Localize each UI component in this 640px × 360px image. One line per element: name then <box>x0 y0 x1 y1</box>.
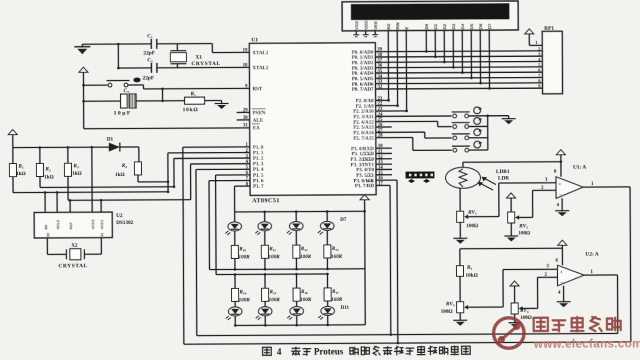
svg-text:U1: A: U1: A <box>573 165 586 171</box>
wire P1.7 row <box>235 185 250 187</box>
crystal X2 <box>66 249 84 260</box>
RTC DS1302 top pin labels <box>44 219 104 230</box>
resistor R10 top row <box>231 245 238 270</box>
svg-text:R13: R13 <box>332 247 339 252</box>
svg-text:D2: D2 <box>442 23 447 29</box>
wire RV1 wiper to pin3 <box>469 183 556 217</box>
label R13 value <box>331 254 343 260</box>
label R3 value <box>72 171 82 177</box>
junction reset rail button <box>82 84 85 87</box>
svg-text:DS1302: DS1302 <box>116 220 133 226</box>
wire P1.6 row <box>209 179 250 181</box>
svg-text:22pF: 22pF <box>142 75 154 81</box>
diamond marker right <box>423 179 430 183</box>
diamond marker left <box>408 179 415 183</box>
label RV4 value <box>520 316 532 321</box>
svg-text:P1. 0: P1. 0 <box>253 146 264 151</box>
svg-text:P1. 6: P1. 6 <box>253 179 264 184</box>
svg-text:100Ω: 100Ω <box>518 230 530 236</box>
label U2A pin2 <box>544 273 547 278</box>
svg-text:+: + <box>560 271 563 276</box>
svg-text:D0: D0 <box>424 23 429 29</box>
svg-text:D7: D7 <box>487 23 492 29</box>
svg-text:RV4: RV4 <box>520 309 529 314</box>
watermark url www.elecfans.com <box>533 338 640 351</box>
svg-text:P1. 5: P1. 5 <box>253 174 264 179</box>
svg-text:AT89C51: AT89C51 <box>252 198 280 204</box>
svg-text:P1. 2: P1. 2 <box>253 157 264 162</box>
LED D13 bottom row <box>287 306 303 326</box>
svg-text:R15: R15 <box>270 290 277 295</box>
wire X2 left <box>47 238 66 255</box>
bus terminator black block <box>406 172 434 178</box>
svg-text:100R: 100R <box>300 254 312 260</box>
wire U1A pin8 <box>560 158 563 177</box>
svg-text:R12: R12 <box>301 247 308 252</box>
LED D8 top row <box>255 210 271 245</box>
label RV1 value <box>466 223 478 229</box>
wire P3.6 down <box>376 180 399 344</box>
capacitor C2 <box>151 63 157 73</box>
wire net RST bus <box>68 199 191 202</box>
label LDR <box>498 176 509 182</box>
svg-text:P0. 3/AD3: P0. 3/AD3 <box>352 67 374 72</box>
svg-text:10kΩ: 10kΩ <box>183 107 199 113</box>
push button SW1 <box>452 107 488 118</box>
svg-text:D6: D6 <box>478 23 483 29</box>
wire riser to P1.1 <box>167 153 170 193</box>
svg-text:R14: R14 <box>240 290 247 295</box>
label R17 <box>332 290 339 295</box>
op-amp label U1 text <box>251 37 258 43</box>
label U2A pin1 <box>590 270 593 275</box>
svg-text:EA: EA <box>253 126 260 131</box>
push button reset <box>83 80 143 87</box>
label U2A pin8 <box>555 259 558 264</box>
ink blob speck <box>133 78 140 83</box>
svg-text:E: E <box>404 27 409 30</box>
wire VCC left rail <box>13 137 109 148</box>
label R14 <box>240 290 247 295</box>
svg-text:100Ω: 100Ω <box>466 223 478 229</box>
wire P1.0 row <box>183 146 250 148</box>
label C2 value 22pF <box>142 75 154 81</box>
label U1:A <box>573 165 586 171</box>
svg-text:100R: 100R <box>300 297 312 303</box>
junction RST node <box>161 88 164 103</box>
wire P1.1 row <box>168 151 250 153</box>
svg-text:VSS: VSS <box>354 21 359 30</box>
power VCC arrow U1A <box>556 150 565 158</box>
LDR1 sensor <box>445 167 496 190</box>
svg-text:P0. 0/AD0: P0. 0/AD0 <box>352 51 374 56</box>
label R5 <box>467 265 473 271</box>
svg-text:LDR1: LDR1 <box>496 169 510 175</box>
MCU label AT89C51 <box>252 198 280 204</box>
svg-text:XTAL1: XTAL1 <box>252 51 269 56</box>
svg-text:U1: U1 <box>251 37 258 43</box>
MCU port P1 pin labels <box>253 146 264 190</box>
wire P2.7 to button4 <box>376 137 452 150</box>
ground buttons <box>502 116 516 125</box>
svg-text:P1. 3: P1. 3 <box>253 162 264 167</box>
RTC U2 DS1302 body <box>34 212 112 238</box>
svg-text:1kΩ: 1kΩ <box>72 171 82 177</box>
svg-text:−: − <box>561 281 564 286</box>
label R15 value <box>269 297 281 303</box>
svg-text:P1. 1: P1. 1 <box>253 151 264 156</box>
svg-text:P2. 7/A15: P2. 7/A15 <box>353 137 374 142</box>
wire U1A output <box>583 187 631 342</box>
svg-text:D1: D1 <box>107 137 114 143</box>
wire gnd to C1 <box>82 43 151 45</box>
MCU port P3 pin labels <box>350 147 374 189</box>
svg-text:P2. 0/A8: P2. 0/A8 <box>356 99 375 104</box>
wire P2.2 row <box>376 110 407 112</box>
wire RP1 pin1 <box>529 37 542 46</box>
wire XTAL1 pin 19 <box>212 51 249 53</box>
label R12 value <box>300 254 312 260</box>
resistor R17 bottom row <box>324 273 331 306</box>
wire PSEN ALE stubs <box>237 112 250 120</box>
label R reset value 10k <box>183 107 199 113</box>
wire VCC rail down <box>82 75 84 128</box>
label R2 value <box>44 174 54 180</box>
wire net I/O bus <box>138 181 168 183</box>
capacitor C3 electrolytic <box>121 94 137 108</box>
wire R5 to RV3 <box>459 276 461 301</box>
MCU right pin numbers <box>377 48 383 187</box>
wire X1 right <box>84 238 101 255</box>
svg-text:VEE: VEE <box>373 21 378 30</box>
watermark text dianzifashaoyou <box>534 317 621 332</box>
label R12 <box>301 247 308 252</box>
wire LDR bottom <box>459 188 461 211</box>
LED D12 bottom row <box>256 307 272 327</box>
svg-text:1kΩ: 1kΩ <box>115 172 125 178</box>
svg-text:D4: D4 <box>460 23 465 29</box>
resistor R3 1k <box>64 146 71 200</box>
LED D9 top row <box>287 210 303 245</box>
svg-text:X1: X1 <box>100 232 104 236</box>
label RP1 <box>544 26 554 32</box>
label LDR1 <box>496 169 510 175</box>
svg-text:X2: X2 <box>46 233 50 237</box>
svg-text:RS: RS <box>386 23 391 29</box>
label R11 value <box>268 254 280 260</box>
wire P1.2 row <box>174 157 250 159</box>
wire U1A pin4 <box>561 198 563 207</box>
wire U2A top rail <box>460 248 563 266</box>
wire R to ground <box>205 100 222 102</box>
svg-text:ALE: ALE <box>253 119 264 124</box>
svg-text:P0. 7/AD7: P0. 7/AD7 <box>352 88 374 93</box>
svg-text:D11: D11 <box>341 306 350 311</box>
wire P0 bus rows <box>375 51 542 89</box>
potentiometer RV3 <box>457 302 473 313</box>
label X2 <box>71 244 78 249</box>
LCD module LM016L body <box>342 1 518 31</box>
wire U2A pin4 <box>563 286 565 299</box>
wire LDR top to VCC <box>463 162 561 168</box>
label R2 <box>45 166 51 172</box>
power VCC arrow LED array <box>360 195 369 203</box>
wire C3 to R junction <box>136 100 184 102</box>
label U2A pin3 <box>546 264 549 269</box>
wire D1 to R4 corner <box>138 147 140 162</box>
push button SW2 <box>452 118 488 129</box>
wire P2.6 to button3 <box>376 132 452 138</box>
RTC DS1302 bottom pin labels <box>46 232 104 237</box>
wire DS1302 SCLK stub <box>56 191 59 212</box>
ground RV4 <box>508 320 521 328</box>
wire VCC to RV2 <box>510 201 512 212</box>
resistor R14 bottom row <box>231 273 238 306</box>
svg-text:100R: 100R <box>269 297 281 303</box>
svg-text:CRYSTAL: CRYSTAL <box>191 61 220 67</box>
label R16 value <box>300 297 312 303</box>
label R15 <box>270 290 277 295</box>
MCU U1 AT89C51 body <box>249 43 376 196</box>
junction C3 rail <box>82 100 85 103</box>
svg-text:P3. 0/RXD: P3. 0/RXD <box>351 147 374 152</box>
svg-text:R10: R10 <box>239 247 246 252</box>
label R11 <box>269 247 276 252</box>
label R14 value <box>239 297 251 303</box>
label U2A pin4 <box>558 291 561 296</box>
label RV1 <box>468 210 477 216</box>
label U1A pin2 <box>541 186 544 191</box>
ground RV2 <box>504 233 518 242</box>
wire riser to P1.2 <box>173 158 176 188</box>
label R reset <box>191 91 197 97</box>
label RV3 value <box>441 309 453 315</box>
wire RV3 to ground <box>459 313 461 317</box>
MCU left pin numbers <box>243 49 249 188</box>
svg-text:RW: RW <box>395 21 400 29</box>
svg-text:P1. 4: P1. 4 <box>253 168 264 173</box>
resistor R12 top row <box>293 245 300 270</box>
svg-text:D7: D7 <box>340 218 347 223</box>
wire DS1302 VCC2 <box>91 147 93 212</box>
svg-text:160R: 160R <box>331 297 343 303</box>
wire LED mid rail B <box>216 273 327 276</box>
wire P1.7 down to LED rail <box>234 186 236 212</box>
svg-text:1kΩ: 1kΩ <box>44 174 54 180</box>
power VCC arrow RP1 <box>525 29 534 37</box>
svg-text:D5: D5 <box>469 23 474 29</box>
label R10 <box>239 247 246 252</box>
wire P2.0 row <box>376 99 389 101</box>
resistor R16 bottom row <box>293 273 300 306</box>
wire DS1302 RST stub <box>69 199 72 212</box>
wire LED mid rail A <box>209 268 364 271</box>
crystal X1 <box>170 44 186 68</box>
wire C1 to XTAL1 corner <box>157 44 213 53</box>
label R1 value <box>16 171 26 177</box>
svg-text:P0. 1/AD1: P0. 1/AD1 <box>352 56 374 61</box>
svg-text:P0. 6/AD6: P0. 6/AD6 <box>352 82 374 87</box>
svg-text:P0. 5/AD5: P0. 5/AD5 <box>352 77 374 82</box>
svg-text:P3. 7/RD: P3. 7/RD <box>355 184 375 189</box>
label R1 <box>18 164 24 170</box>
potentiometer RV1 <box>457 211 473 222</box>
wire net SCLK bus <box>40 186 174 189</box>
power VCC arrow U2A <box>558 240 567 248</box>
svg-text:R17: R17 <box>332 290 339 295</box>
resistor R13 top row <box>324 245 331 270</box>
svg-text:PSEN: PSEN <box>253 111 266 116</box>
wire LED bottom rail <box>235 324 365 327</box>
wire RV3 wiper to pin3 <box>469 269 558 307</box>
label C1 <box>147 33 153 39</box>
svg-text:www.elecfans.com: www.elecfans.com <box>533 338 640 351</box>
wire VCC to RV4 <box>514 289 516 303</box>
resistor R1 1k <box>9 148 16 193</box>
ground RV3 <box>453 317 467 326</box>
svg-text:22pF: 22pF <box>143 50 155 56</box>
label RP1 pin1 <box>535 40 538 45</box>
push button SW3 <box>452 129 488 140</box>
label C3 value 10uF <box>114 110 132 116</box>
op-amp U2:A <box>557 265 584 286</box>
svg-text:100Ω: 100Ω <box>520 316 532 321</box>
svg-text:I/O: I/O <box>44 224 48 229</box>
MCU port P2 pin labels <box>353 99 374 141</box>
ground reset resistor <box>215 100 229 109</box>
label U1A pin1 <box>591 182 594 187</box>
wire P3.0-P3.5 stubs <box>376 148 392 175</box>
wire RV4 to ground <box>514 314 516 320</box>
wire RV2 wiper to pin2 <box>520 190 556 217</box>
svg-text:−: − <box>559 193 562 198</box>
label D1 <box>107 137 114 143</box>
label X2 CRYSTAL <box>58 263 87 269</box>
label X1 CRYSTAL <box>191 61 220 67</box>
wire rail to C3 <box>84 100 121 102</box>
resistor pack RP1 body <box>542 31 562 94</box>
wire U2A pin8 <box>561 248 563 265</box>
label U1A pin4 <box>557 203 560 208</box>
caption text <box>263 346 471 357</box>
LCD screen black area <box>351 4 509 20</box>
LED D10 top row <box>318 210 334 245</box>
LED D11 bottom row <box>226 307 242 327</box>
resistor R11 top row <box>261 245 268 270</box>
wire riser P1.3 <box>190 164 192 200</box>
label R5 value <box>465 273 477 279</box>
MCU port P0 pin labels <box>352 51 374 93</box>
resistor R reset 10k <box>185 97 205 104</box>
svg-text:100Ω: 100Ω <box>441 309 453 315</box>
wire EA to VCC rail <box>84 127 250 130</box>
wire RV1 to ground <box>459 222 461 235</box>
capacitor C1 <box>151 39 157 49</box>
wire net R1 bus <box>13 191 168 194</box>
wire cap ground rail <box>117 43 120 68</box>
wire P1.5 row <box>216 174 250 176</box>
RP1 pin numbers 2-9 <box>538 46 541 88</box>
label D11 <box>341 306 350 311</box>
LED D14 bottom row <box>318 306 334 326</box>
label R4 value <box>115 172 125 178</box>
wire buttons to ground <box>486 114 508 117</box>
wire P3.7 down <box>376 185 392 336</box>
svg-text:100R: 100R <box>268 254 280 260</box>
resistor R15 bottom row <box>261 273 268 306</box>
svg-text:4: 4 <box>277 347 282 357</box>
label DS1302 <box>116 220 133 226</box>
watermark logo circle <box>494 318 525 349</box>
wire P1.5 bus down <box>215 175 218 274</box>
ground top-left <box>74 44 90 54</box>
svg-text:X1: X1 <box>195 55 202 61</box>
wire buttons common <box>487 116 489 150</box>
svg-text:P2. 4/A12: P2. 4/A12 <box>353 121 374 126</box>
wire P2.5 stub <box>376 126 392 128</box>
svg-text:P2. 5/A13: P2. 5/A13 <box>353 126 374 131</box>
wire P1.0 bus down <box>183 147 184 344</box>
LCD power pins VSS VDD VEE stubs <box>353 31 378 37</box>
label U1A pin3 <box>545 178 548 183</box>
label R13 <box>332 247 339 252</box>
svg-text:R11: R11 <box>269 247 276 252</box>
wire RV4 wiper to pin2 <box>524 277 558 308</box>
svg-text:VDD: VDD <box>363 20 368 29</box>
diode D1 <box>109 142 139 151</box>
wire U2A output <box>584 275 618 334</box>
wire LED right vertical <box>364 203 367 325</box>
LCD pin labels VSS VDD VEE RS RW E D0-D7 <box>354 20 492 30</box>
svg-text:XTAL2: XTAL2 <box>252 66 269 71</box>
svg-text:100R: 100R <box>238 254 250 260</box>
label R3 <box>73 163 79 169</box>
wire P1.3 row <box>191 163 250 165</box>
svg-text:D1: D1 <box>433 23 438 29</box>
label RV4 <box>520 309 529 314</box>
power VCC arrow reset <box>79 67 88 75</box>
resistor R2 1k <box>36 146 43 187</box>
svg-text:P3. 4/T0: P3. 4/T0 <box>356 168 374 173</box>
wire P2.4 to button2 <box>376 121 452 127</box>
label R17 value <box>331 297 343 303</box>
wire gnd rail to C2 <box>117 67 151 70</box>
svg-text:+: + <box>559 183 562 188</box>
label R4 <box>122 163 128 169</box>
ground RV1 <box>453 235 467 244</box>
svg-text:P0. 4/AD4: P0. 4/AD4 <box>352 72 374 77</box>
wire button to RST pin 9 <box>143 84 249 89</box>
svg-text:100R: 100R <box>239 297 251 303</box>
svg-text:P2. 3/A11: P2. 3/A11 <box>353 115 374 120</box>
wire LCD data lines D0-D7 <box>425 30 491 90</box>
wire P1.4 bus down <box>195 170 198 336</box>
svg-text:P2. 2/A10: P2. 2/A10 <box>353 110 374 115</box>
svg-text:U2: U2 <box>116 213 123 219</box>
svg-text:P1. 7: P1. 7 <box>253 185 264 190</box>
svg-text:P2. 1/A9: P2. 1/A9 <box>356 105 375 110</box>
power VCC arrow left <box>8 130 17 138</box>
wire C2 to XTAL2 pin 18 <box>157 66 249 68</box>
label C1 value 22pF <box>143 50 155 56</box>
svg-text:Proteus: Proteus <box>314 346 344 356</box>
svg-text:VCC2: VCC2 <box>91 220 95 230</box>
label R10 value <box>238 254 250 260</box>
svg-text:160R: 160R <box>331 254 343 260</box>
wire DS1302 I/O stub <box>44 191 47 212</box>
wire P2.1 row <box>376 105 398 107</box>
potentiometer RV2 <box>508 212 524 223</box>
